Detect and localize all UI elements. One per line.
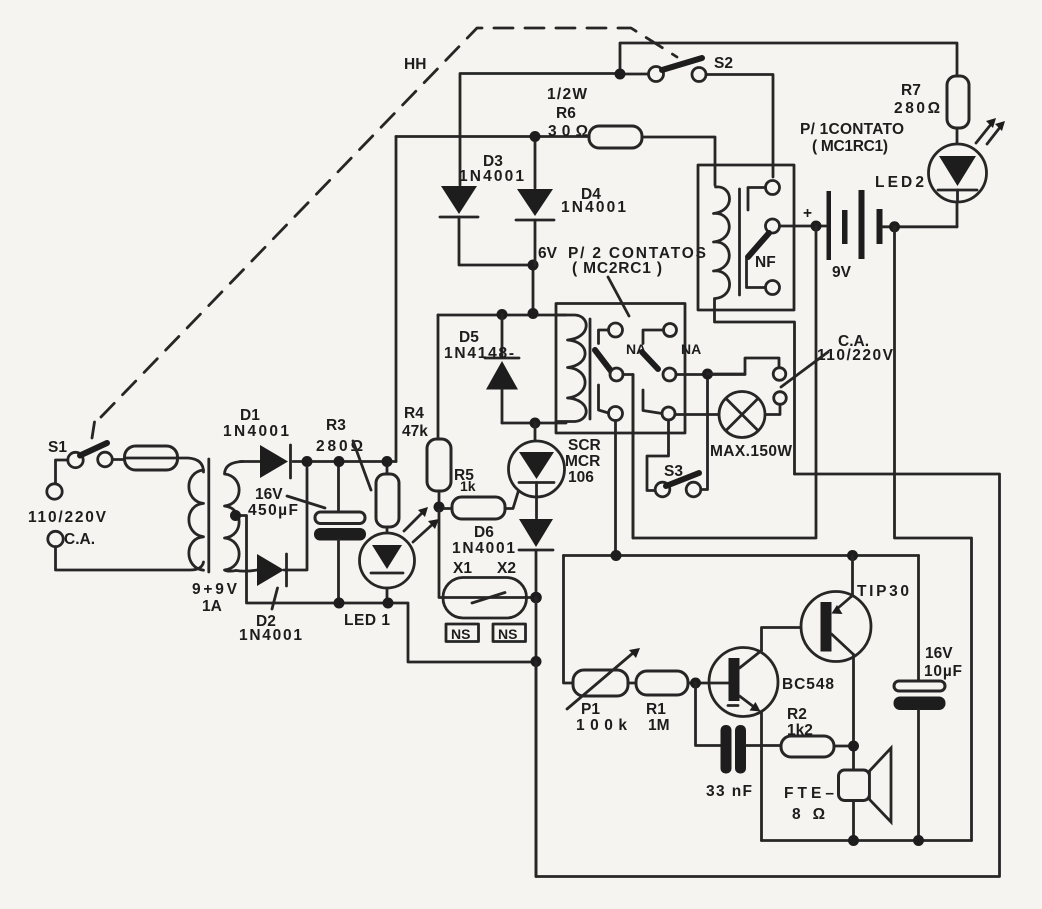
- wire NA2 lower to S3 left: [647, 420, 669, 491]
- node C1 top: [334, 456, 345, 467]
- svg-text:1N4001: 1N4001: [452, 540, 515, 557]
- diode D5: [444, 315, 519, 424]
- relay MC1RC1 coil bottom return: [715, 299, 795, 475]
- SCR gate wire: [505, 489, 519, 509]
- node SCR anode: [530, 418, 541, 429]
- relay MC1RC1 coil: [714, 187, 730, 299]
- wire oscillator bottom rail: [762, 839, 972, 842]
- svg-text:10µF: 10µF: [924, 663, 962, 680]
- svg-text:S2: S2: [714, 55, 733, 72]
- relay MC1RC1 NA terminal: [748, 181, 780, 211]
- capacitor C1 450uF: [248, 462, 366, 604]
- node coil top: [528, 308, 539, 319]
- wire node to CA upper terminal: [708, 358, 780, 374]
- wire S1 to AC terminal: [56, 460, 68, 484]
- svg-text:R1: R1: [646, 701, 666, 718]
- wire CA lower to lamp: [765, 404, 780, 414]
- label 9+9V 1A: [192, 581, 238, 615]
- svg-text:C.A.: C.A.: [64, 531, 95, 548]
- NS box 2: [493, 624, 526, 642]
- resistor R7: [894, 76, 969, 128]
- svg-text:D1: D1: [240, 407, 260, 424]
- switch S2: [649, 55, 733, 82]
- wire top rail: [620, 43, 957, 76]
- wire outer box: [536, 474, 1000, 877]
- svg-text:+: +: [803, 205, 812, 222]
- LED2 arrows: [976, 118, 1005, 144]
- svg-text:NF: NF: [755, 254, 776, 271]
- svg-text:( MC2RC1 ): ( MC2RC1 ): [572, 260, 662, 277]
- svg-text:R4: R4: [404, 405, 424, 422]
- svg-text:X2: X2: [497, 560, 516, 577]
- svg-text:MCR: MCR: [565, 453, 600, 470]
- capacitor 33nF: [706, 725, 781, 800]
- relay MC2RC1 core: [589, 319, 592, 419]
- diode D4: [516, 142, 626, 265]
- svg-text:1N4001: 1N4001: [459, 168, 524, 185]
- svg-text:110/220V: 110/220V: [28, 509, 107, 526]
- node D5 cathode: [497, 309, 508, 320]
- wire D5 anode / coil bottom / SCR anode: [502, 422, 566, 425]
- svg-text:S1: S1: [48, 439, 67, 456]
- relay MC1RC1 core: [738, 189, 741, 295]
- wire S2 left / D3 top: [460, 74, 649, 186]
- relay contact NA1 lower terminal: [599, 385, 623, 550]
- wire coil top line: [438, 314, 566, 317]
- switch S3: [655, 463, 701, 497]
- wire battery plus loop to oscillator frame: [633, 226, 816, 538]
- svg-text:16V: 16V: [925, 645, 953, 662]
- resistor R6: [547, 86, 642, 148]
- resistor R4: [402, 315, 451, 503]
- resistor R2: [781, 706, 848, 757]
- node C1 bottom: [334, 598, 345, 609]
- node D1-D2 cathodes: [302, 456, 313, 467]
- label 110/220V C.A.: [28, 509, 107, 548]
- svg-text:R7: R7: [901, 82, 921, 99]
- svg-text:1k: 1k: [460, 478, 476, 494]
- svg-text:9V: 9V: [832, 264, 852, 281]
- svg-text:1M: 1M: [648, 717, 670, 734]
- svg-text:X1: X1: [453, 560, 472, 577]
- relay contact NA2 top terminal: [643, 324, 677, 344]
- wire +rail riser to R6 line: [395, 137, 398, 462]
- svg-text:BC548: BC548: [782, 676, 834, 693]
- relay MC1RC1 common terminal: [766, 219, 827, 233]
- wire base node to 33nF: [696, 683, 721, 746]
- label P/2 CONTATOS (MC2RC1): [538, 245, 706, 316]
- svg-text:33 nF: 33 nF: [706, 783, 752, 800]
- wire 6V node to coil line: [532, 265, 535, 314]
- wire S1 to fuse: [112, 458, 124, 461]
- svg-text:1A: 1A: [202, 598, 222, 615]
- relay MC1RC1 box: [698, 165, 794, 310]
- relay contact NA2 moving terminal: [663, 368, 745, 381]
- wire BC548 emitter to bottom rail: [760, 712, 763, 841]
- relay MC2RC1 coil: [556, 315, 586, 422]
- transformer T1 primary: [189, 470, 204, 570]
- diode D6: [452, 519, 553, 598]
- relay contact NA1 moving terminal: [610, 368, 633, 538]
- wire +rail: [293, 460, 396, 463]
- node TIP30 emitter: [847, 550, 858, 561]
- CA terminal upper: [773, 368, 786, 381]
- diode D2: [239, 468, 307, 644]
- relay MC2RC1 box: [556, 304, 685, 434]
- svg-text:MAX.150W: MAX.150W: [710, 443, 792, 460]
- node speaker bottom: [848, 835, 859, 846]
- node center tap: [230, 510, 241, 521]
- wire S3 right up to lamp node: [701, 374, 708, 490]
- AC plug terminal 2: [48, 531, 63, 546]
- wire R4 to reed: [439, 510, 536, 598]
- resistor R3: [316, 417, 399, 527]
- svg-text:16V: 16V: [255, 486, 283, 503]
- svg-text:280Ω: 280Ω: [894, 100, 940, 117]
- NS box 1: [446, 624, 479, 642]
- wire secondary top to D1: [240, 460, 260, 463]
- node lamp/S3: [702, 369, 713, 380]
- svg-text:NS: NS: [451, 626, 470, 642]
- dashed line HH: [92, 28, 677, 438]
- wire TIP30 emitter up: [851, 556, 854, 596]
- wire battery to LED2: [883, 225, 958, 228]
- svg-text:30Ω: 30Ω: [548, 123, 588, 140]
- svg-text:D5: D5: [459, 329, 479, 346]
- node 0V joins: [531, 656, 542, 667]
- relay contact NA1 arm: [595, 350, 611, 371]
- node LED1 bottom: [383, 598, 394, 609]
- resistor R1: [628, 671, 710, 734]
- svg-text:( MC1RC1): ( MC1RC1): [812, 138, 888, 155]
- svg-text:LED 1: LED 1: [344, 612, 390, 629]
- svg-text:9+9V: 9+9V: [192, 581, 238, 598]
- SCR MCR106: [509, 423, 601, 518]
- node R3 top: [382, 456, 393, 467]
- wire TIP30 collector down: [852, 655, 855, 771]
- wire AC bottom to transformer primary: [56, 547, 204, 570]
- switch S1: [48, 439, 112, 468]
- svg-text:NS: NS: [498, 626, 517, 642]
- wire secondary bottom to D2: [236, 570, 257, 571]
- svg-text:R6: R6: [556, 105, 576, 122]
- potentiometer P1: [567, 648, 640, 734]
- node battery plus: [811, 221, 822, 232]
- wire rail to P1: [564, 556, 574, 684]
- svg-text:1N4148-: 1N4148-: [444, 345, 514, 362]
- transistor BC548: [709, 648, 834, 717]
- relay contact NA2 lower terminal: [643, 390, 675, 420]
- node R4 bottom: [434, 502, 445, 513]
- svg-text:1k2: 1k2: [787, 722, 813, 739]
- svg-text:R2: R2: [787, 706, 807, 723]
- wire R6 line: [396, 137, 715, 186]
- capacitor 10uF: [894, 556, 963, 841]
- wire oscillator top rail: [564, 554, 919, 557]
- wire fuse to primary: [178, 458, 204, 472]
- svg-text:1N4001: 1N4001: [239, 627, 302, 644]
- diode D3: [440, 153, 528, 265]
- svg-text:R3: R3: [326, 417, 346, 434]
- center tap wire to 0V rail: [236, 516, 537, 663]
- relay contact NA2 arm: [642, 352, 658, 369]
- LED2: [875, 128, 987, 227]
- resistor R5: [444, 467, 505, 519]
- transistor TIP30: [801, 583, 909, 662]
- lamp MAX.150W: [675, 392, 792, 461]
- wire battery minus to oscillator rail: [895, 227, 972, 841]
- svg-text:110/220V: 110/220V: [817, 347, 894, 364]
- relay contact NA1 top terminal: [599, 323, 623, 344]
- transformer T1 secondary: [225, 462, 244, 572]
- battery 9V: [803, 190, 883, 281]
- svg-text:47k: 47k: [402, 423, 428, 440]
- svg-text:1/2W: 1/2W: [547, 86, 587, 103]
- node battery minus: [889, 221, 900, 232]
- LED1 arrows: [404, 507, 439, 542]
- svg-text:P/ 1CONTATO: P/ 1CONTATO: [800, 121, 904, 138]
- svg-text:450µF: 450µF: [248, 502, 298, 519]
- diode D1: [223, 407, 291, 478]
- relay MC1RC1 NF arm: [747, 233, 780, 295]
- reed switch X1 X2: [443, 560, 527, 618]
- svg-text:NA: NA: [681, 341, 701, 357]
- node reed right: [530, 592, 542, 604]
- node BC548 base: [690, 678, 701, 689]
- svg-text:106: 106: [568, 469, 594, 486]
- svg-text:1N4001: 1N4001: [561, 199, 626, 216]
- svg-text:HH: HH: [404, 56, 426, 73]
- node 6V: [528, 260, 539, 271]
- AC plug terminal 1: [47, 484, 62, 499]
- fuse F1: [125, 446, 178, 470]
- speaker FTE 8ohm: [784, 748, 891, 841]
- label P/1CONTATO (MC1RC1): [800, 121, 904, 155]
- node cap bottom: [913, 835, 924, 846]
- node R2/collector: [848, 741, 859, 752]
- svg-text:P1: P1: [581, 701, 600, 718]
- svg-text:SCR: SCR: [568, 437, 601, 454]
- transformer core: [207, 459, 210, 572]
- node R6 left / D4 anode: [530, 131, 541, 142]
- wire SCR cathode down to outer box: [535, 598, 538, 877]
- svg-text:TIP30: TIP30: [857, 583, 909, 600]
- svg-text:D6: D6: [474, 524, 494, 541]
- wire BC548 collector to TIP30 base: [762, 628, 822, 651]
- svg-text:6V: 6V: [538, 245, 558, 262]
- node relay feed: [611, 550, 622, 561]
- label C.A. 110/220V right: [781, 333, 894, 387]
- CA terminal lower: [774, 392, 787, 405]
- LED1: [344, 527, 415, 629]
- node S2 left: [615, 69, 626, 80]
- wire S2 right to relay NA: [706, 75, 773, 178]
